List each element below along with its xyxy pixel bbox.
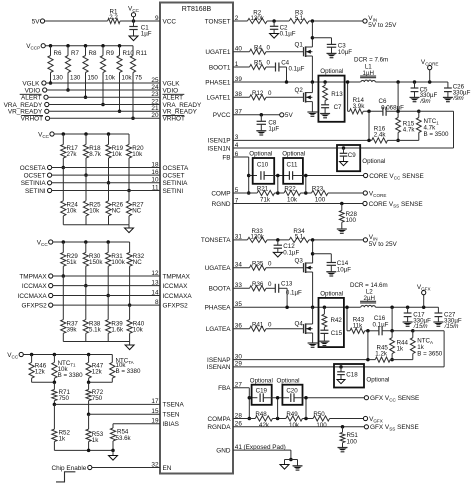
svg-text:NC: NC <box>133 259 142 266</box>
svg-text:0.1µF: 0.1µF <box>283 250 299 257</box>
svg-text:ICCMAXA: ICCMAXA <box>163 293 193 300</box>
wire SETINI to IC <box>52 190 160 192</box>
svg-text:5V: 5V <box>285 112 294 119</box>
wire join R47 NTC_TA <box>89 381 113 383</box>
wire sense row A to right edge <box>413 330 444 332</box>
svg-text:/9m: /9m <box>452 95 463 102</box>
svg-text:ALERT: ALERT <box>163 95 184 102</box>
resistor R72 750 <box>88 382 90 389</box>
terminal VGFX <box>423 295 425 308</box>
svg-text:GFXPS2: GFXPS2 <box>163 302 189 309</box>
ground below C17 <box>403 321 413 323</box>
terminal VRHOT <box>45 116 49 120</box>
VCC rail NTC network <box>23 354 112 356</box>
wire TMPMAX to IC <box>53 275 160 277</box>
svg-text:5V to 25V: 5V to 25V <box>368 22 397 29</box>
terminal VCC for TMPMAX network <box>49 240 53 244</box>
svg-text:150k: 150k <box>89 259 103 266</box>
ground below C5 <box>410 96 420 98</box>
wire phase tap down to R14 <box>347 82 349 111</box>
terminal 5V input <box>40 19 44 23</box>
svg-text:0: 0 <box>267 44 271 51</box>
wire VGLK to IC <box>46 82 160 84</box>
resistor R23 100 <box>312 190 329 195</box>
wire to signal ground <box>285 459 291 461</box>
resistor R41 0 <box>250 326 267 331</box>
resistor R22 10k <box>284 190 301 195</box>
svg-text:OCSET: OCSET <box>24 172 46 179</box>
svg-text:2.4k: 2.4k <box>374 132 387 139</box>
resistor R38 5.1k pull-down <box>85 286 87 320</box>
svg-text:5V to 25V: 5V to 25V <box>369 241 398 248</box>
ground TSEN network <box>109 456 118 461</box>
capacitor C19 <box>259 393 261 402</box>
svg-text:1µF: 1µF <box>141 31 152 38</box>
wire C4 to phase row <box>279 66 287 68</box>
capacitor C3 10uF <box>312 37 331 39</box>
resistor R9 10k pull-up <box>101 44 105 48</box>
node ISEN1P tap <box>367 110 371 114</box>
terminal SETINIA <box>48 181 52 185</box>
svg-text:ISENAP: ISENAP <box>207 357 230 364</box>
wire FB pin6 right <box>233 156 249 158</box>
terminal VCC for NTC network <box>19 352 23 356</box>
wire output down to sense row <box>397 82 399 111</box>
svg-text:27k: 27k <box>67 151 78 158</box>
svg-text:B = 3500: B = 3500 <box>424 131 450 138</box>
svg-text:R5: R5 <box>254 60 262 67</box>
node VIN rail tap <box>311 19 315 23</box>
node sense tap A <box>390 305 394 309</box>
svg-text:PHASE1: PHASE1 <box>205 79 231 86</box>
ground below Q4 <box>308 342 318 344</box>
svg-text:GFX VSS SENSE: GFX VSS SENSE <box>370 424 419 432</box>
svg-text:R13: R13 <box>331 91 343 98</box>
wire L1 to output <box>375 81 448 83</box>
optional snubber box R42 C15 <box>319 298 344 347</box>
svg-text:Optional: Optional <box>320 68 343 75</box>
wire UGATE1 pin40 to R4 <box>233 51 250 53</box>
thermistor NTC_TA 10k B=3380 <box>111 355 113 363</box>
wire R12 to Q2 gate <box>266 96 304 98</box>
svg-text:R35: R35 <box>252 260 264 267</box>
OCSET network ground rail <box>63 224 129 226</box>
wire IBIAS row <box>113 423 160 425</box>
capacitor C1 1uF <box>133 21 135 27</box>
resistor R54 53.6k <box>112 424 114 428</box>
svg-text:IBIAS: IBIAS <box>163 421 179 428</box>
optional box C9 <box>337 145 360 171</box>
wire R41 to Q4 gate <box>266 328 304 330</box>
resistor R12 0 <box>250 95 267 100</box>
capacitor C15 snubber <box>323 327 325 330</box>
capacitor C8 1uF <box>260 115 262 122</box>
svg-text:51k: 51k <box>67 259 78 266</box>
wire UGATEA pin34 to R35 <box>233 267 250 269</box>
capacitor C2 0.1uF <box>273 21 275 26</box>
resistor R31 100k pull-up <box>106 240 110 244</box>
svg-text:0.1µF: 0.1µF <box>286 290 302 297</box>
resistor R43 11k <box>347 330 350 332</box>
svg-text:1k: 1k <box>92 437 99 444</box>
svg-text:PVCC: PVCC <box>213 112 231 119</box>
wire ALERT to IC <box>48 96 160 98</box>
wire RGNDA row <box>233 426 364 428</box>
capacitor C26 330uF output <box>447 82 449 88</box>
terminal CORE VCC SENSE <box>364 173 368 177</box>
resistor R27 NC pull-down <box>128 191 130 201</box>
ground below C9 <box>340 162 348 166</box>
wire VR_READY to IC <box>49 110 160 112</box>
wire Q2 drain to phase node <box>311 82 313 93</box>
wire R35 to Q3 gate <box>266 267 304 269</box>
node C18 tap on ISENAN row <box>339 365 343 369</box>
resistor R1 2.2 <box>108 18 121 23</box>
wire FBA down to COMPA row <box>248 388 250 419</box>
svg-text:Optional: Optional <box>362 158 385 165</box>
node ground split <box>289 458 293 462</box>
TSEN network ground rail <box>54 449 113 451</box>
resistor R14 3.9k <box>348 110 350 112</box>
svg-text:RGNDA: RGNDA <box>207 424 231 431</box>
svg-text:11k: 11k <box>353 323 363 330</box>
svg-text:ICCMAX: ICCMAX <box>22 283 48 290</box>
wire ICCMAXA to IC <box>53 295 160 297</box>
wire R33 to R34 <box>267 239 289 241</box>
ground below C2 <box>270 34 279 39</box>
capacitor C10 <box>260 171 262 180</box>
ground below C27 <box>433 321 443 323</box>
svg-text:TONSETA: TONSETA <box>201 237 231 244</box>
svg-text:TMPMAX: TMPMAX <box>19 273 47 280</box>
svg-text:/15m: /15m <box>413 323 428 330</box>
vertical link sense node to ISEN1P row <box>368 111 370 140</box>
svg-text:Optional: Optional <box>282 151 305 158</box>
svg-text:10k: 10k <box>132 151 143 158</box>
svg-text:750: 750 <box>59 395 70 402</box>
svg-text:10k: 10k <box>287 196 298 203</box>
svg-text:GND: GND <box>216 447 231 454</box>
svg-text:OCSETA: OCSETA <box>20 165 47 172</box>
thermistor NTC_T1 10k B=3380 <box>53 353 57 357</box>
svg-text:R11: R11 <box>136 50 147 57</box>
svg-text:C9: C9 <box>348 152 356 159</box>
resistor R33 130k <box>247 237 267 242</box>
svg-text:71k: 71k <box>260 196 271 203</box>
svg-text:COMPA: COMPA <box>208 416 232 423</box>
svg-text:130: 130 <box>70 74 81 81</box>
ground below C18 <box>337 380 345 384</box>
svg-text:VDIO: VDIO <box>25 87 41 94</box>
terminal VCORE <box>429 70 431 82</box>
capacitor C5 330uF output <box>414 82 416 88</box>
power ground symbol <box>293 465 303 467</box>
wire ISENAP row from IC <box>233 359 375 361</box>
svg-text:C15: C15 <box>331 330 343 337</box>
wire ICCMAX to IC <box>53 285 160 287</box>
svg-text:ISEN1P: ISEN1P <box>208 138 231 145</box>
svg-text:10µF: 10µF <box>337 266 351 273</box>
wire R49 to R50 <box>302 418 313 420</box>
thermistor NTC1 4.7k B=3500 <box>418 111 420 117</box>
terminal VGFX sense <box>363 416 367 420</box>
wire SETINIA to IC <box>52 182 160 184</box>
terminal VCC for OCSET network <box>50 132 54 136</box>
wire Q3 source to phase node <box>312 272 314 307</box>
vertical link C19 C20 to COMPA row <box>277 398 279 419</box>
resistor R44 1k <box>391 331 393 338</box>
resistor R47 12k <box>87 353 91 357</box>
resistor R3 5.1 <box>289 18 309 23</box>
node C14 tap <box>311 252 315 256</box>
svg-text:R42: R42 <box>331 317 343 324</box>
ground OCSET network <box>125 228 134 233</box>
capacitor feedback row A <box>249 397 257 399</box>
svg-text:C19: C19 <box>256 388 268 395</box>
resistor R40 10k pull-down <box>129 305 131 320</box>
resistor R2 130k <box>247 18 267 23</box>
svg-text:8.7k: 8.7k <box>89 151 102 158</box>
svg-text:VR_READY: VR_READY <box>163 109 198 116</box>
wire R43 to C16 <box>365 330 379 332</box>
IC U1 RT8168B body <box>160 3 233 474</box>
svg-text:EN: EN <box>163 465 172 472</box>
svg-text:130: 130 <box>53 74 64 81</box>
wire FB down to COMP row <box>248 157 250 193</box>
wire COMP row from IC <box>233 192 257 194</box>
node R42 tap on phase A row <box>323 305 327 309</box>
svg-text:10k: 10k <box>289 422 300 429</box>
svg-text:0: 0 <box>267 60 271 67</box>
wire R5 to C4 <box>266 66 276 68</box>
svg-text:4.7k: 4.7k <box>403 127 416 134</box>
vertical link C11 right to COMP row <box>305 176 307 194</box>
svg-text:PHASEA: PHASEA <box>205 305 232 312</box>
svg-text:100k: 100k <box>111 259 125 266</box>
svg-text:75: 75 <box>135 74 142 81</box>
wire VIN vertical to Q3 drain <box>312 240 314 263</box>
svg-text:5V: 5V <box>32 18 41 25</box>
terminal VIN 5V to 25V <box>363 19 367 23</box>
svg-text:Q4: Q4 <box>295 320 304 327</box>
VCCP rail <box>45 45 133 47</box>
wire VRHOT to IC <box>50 117 160 119</box>
resistor R5 0 <box>250 64 267 69</box>
svg-text:ICCMAXA: ICCMAXA <box>18 293 48 300</box>
svg-text:10k: 10k <box>122 74 133 81</box>
vertical link sense node A to ISENAP row <box>367 331 369 360</box>
optional box C11 <box>283 158 303 184</box>
wire R1 to VCC pin 9 <box>120 20 160 22</box>
wire R21 to R22 <box>275 192 285 194</box>
ground TMPMAX network <box>125 345 134 350</box>
svg-text:RT8168B: RT8168B <box>182 6 212 13</box>
svg-text:0: 0 <box>268 321 272 328</box>
svg-text:UGATE1: UGATE1 <box>205 49 231 56</box>
capacitor C27 330uF output <box>437 307 439 313</box>
ground below R28 <box>337 228 347 230</box>
node C12 tap <box>276 238 280 242</box>
svg-text:0: 0 <box>268 281 272 288</box>
resistor R29 51k pull-up <box>62 240 66 244</box>
svg-text:R50: R50 <box>313 411 325 418</box>
svg-text:Optional: Optional <box>250 377 273 384</box>
resistor R71 750 <box>53 382 55 389</box>
wire ISEN1P row from IC <box>233 139 372 141</box>
svg-text:B = 3380: B = 3380 <box>58 372 84 379</box>
terminal GFX VSS SENSE <box>364 425 368 429</box>
svg-text:SETINI: SETINI <box>25 188 46 195</box>
resistor R42 snubber <box>323 307 325 314</box>
ground below C1 <box>129 36 138 41</box>
terminal 5V for PVCC <box>280 113 284 117</box>
svg-text:Optional: Optional <box>249 151 272 158</box>
vertical link C10 C11 to COMP row <box>277 176 279 194</box>
wire C6 to output tap <box>386 110 419 112</box>
wire RGND row <box>233 203 363 205</box>
enable step waveform symbol <box>56 472 75 482</box>
wire R23 to VCORE terminal <box>328 192 363 194</box>
capacitor C18 optional <box>340 367 342 372</box>
resistor R4 0 <box>250 49 267 54</box>
terminal ALERT <box>44 95 48 99</box>
wire ISENAN row from IC to loop <box>233 366 444 368</box>
svg-text:C10: C10 <box>257 161 269 168</box>
svg-text:Optional: Optional <box>320 291 343 298</box>
terminal ICCMAXA <box>49 293 53 297</box>
wire to power ground <box>291 459 298 461</box>
svg-text:750: 750 <box>92 395 103 402</box>
ground below C26 <box>443 96 453 98</box>
wire TSENA row <box>54 403 160 405</box>
node VCORE tap <box>428 80 432 84</box>
svg-text:NC: NC <box>132 208 141 215</box>
svg-text:0.1µF: 0.1µF <box>280 31 296 38</box>
node VCC with supply terminal <box>132 19 136 23</box>
wire C13 to phase A row <box>279 287 287 289</box>
resistor R30 150k pull-up <box>84 240 88 244</box>
wire C16 to output tap A <box>382 330 413 332</box>
wire BOOTA pin33 to R36 <box>233 287 250 289</box>
svg-text:VRHOT: VRHOT <box>163 116 185 123</box>
resistor R52 1k <box>53 404 55 429</box>
resistor R37 39k pull-down <box>62 276 64 320</box>
node VGFX tap <box>422 305 426 309</box>
svg-text:3.9k: 3.9k <box>353 103 366 110</box>
svg-text:0.1µF: 0.1µF <box>373 321 389 328</box>
resistor R50 100 <box>313 416 330 421</box>
resistor R26 NC pull-down <box>108 183 110 201</box>
resistor R11 75 pull-up <box>132 46 134 56</box>
terminal VCCP <box>41 44 45 48</box>
wire Q2 source to ground <box>311 102 313 112</box>
wire sense row to right edge <box>419 110 454 112</box>
svg-text:OCSETA: OCSETA <box>163 165 190 172</box>
svg-text:SETINIA: SETINIA <box>163 180 189 187</box>
terminal VDIO <box>43 88 47 92</box>
svg-text:/15m: /15m <box>444 323 459 330</box>
capacitor C13 0.1uF bootstrap <box>274 284 276 293</box>
svg-text:C11: C11 <box>287 161 298 168</box>
wire OCSET to IC <box>52 174 160 176</box>
svg-text:10k: 10k <box>67 208 78 215</box>
resistor R46 12k <box>30 353 33 357</box>
ground below C8 <box>256 130 266 132</box>
svg-text:C18: C18 <box>346 372 358 379</box>
node C2 tap <box>272 19 276 23</box>
svg-text:Optional: Optional <box>366 377 389 384</box>
node ISENAP tap <box>366 329 370 333</box>
resistor R36 0 <box>250 286 267 291</box>
resistor R15 4.7k <box>397 111 399 117</box>
optional box C20 <box>282 385 302 405</box>
wire R16 to R15 NTC1 bottoms <box>388 139 419 141</box>
resistor R45 1.2k <box>375 357 390 362</box>
vertical link C20 right to COMPA row <box>305 398 307 419</box>
wire PHASE1 row <box>233 81 361 83</box>
wire R50 to VGFX terminal <box>330 418 364 420</box>
terminal SETINI <box>48 188 52 192</box>
capacitor C17 330uF output <box>407 307 409 313</box>
resistor R17 27k pull-up <box>62 132 66 136</box>
resistor R49 10k <box>286 416 303 421</box>
capacitor C14 10uF <box>313 253 332 255</box>
wire 5V to R1 <box>45 20 108 22</box>
capacitor C7 snubber <box>324 101 326 105</box>
svg-text:VR_READY: VR_READY <box>8 109 43 116</box>
svg-text:TSENA: TSENA <box>163 402 185 409</box>
svg-text:R4: R4 <box>254 44 262 51</box>
node C9 tap on ISEN1N row <box>342 146 346 150</box>
resistor R18 8.7k pull-up <box>84 132 88 136</box>
wire PHASEA row <box>233 306 361 308</box>
svg-text:TONSET: TONSET <box>205 18 231 25</box>
wire R3 to VIN terminal <box>309 20 363 22</box>
terminal GFX VCC SENSE <box>364 396 368 400</box>
svg-text:100: 100 <box>347 439 358 446</box>
svg-text:Q2: Q2 <box>295 87 304 94</box>
wire Q4 source to ground <box>312 333 314 343</box>
svg-text:BOOTA: BOOTA <box>209 286 232 293</box>
signal ground symbol <box>280 465 289 470</box>
svg-text:1µH: 1µH <box>363 70 374 77</box>
wire FBA pin27 right <box>233 387 249 389</box>
capacitor C16 0.1uF <box>378 326 380 335</box>
svg-text:1k: 1k <box>59 436 66 443</box>
terminal ICCMAX <box>49 284 53 288</box>
svg-text:10k: 10k <box>112 151 123 158</box>
svg-text:12k: 12k <box>92 369 103 376</box>
wire L2 to output <box>375 306 438 308</box>
svg-text:1k: 1k <box>397 346 404 353</box>
wire R4 to Q1 gate <box>266 51 304 53</box>
svg-text:R22: R22 <box>284 185 296 192</box>
terminal VGLK <box>42 81 46 85</box>
optional box C18 <box>334 364 364 388</box>
node C8 tap <box>260 113 264 117</box>
svg-text:1.2k: 1.2k <box>375 350 388 357</box>
wire EN row <box>92 467 160 469</box>
wire join R46 NTC_T1 <box>32 381 55 383</box>
node sense tap <box>396 80 400 84</box>
wire Q1 source to phase node <box>311 56 313 82</box>
resistor R35 0 <box>250 265 267 270</box>
node VIN rail tap phase A <box>311 238 315 242</box>
svg-text:10k: 10k <box>105 74 116 81</box>
svg-text:10µF: 10µF <box>338 49 352 56</box>
svg-text:FBA: FBA <box>218 385 231 392</box>
svg-text:42k: 42k <box>259 422 270 429</box>
